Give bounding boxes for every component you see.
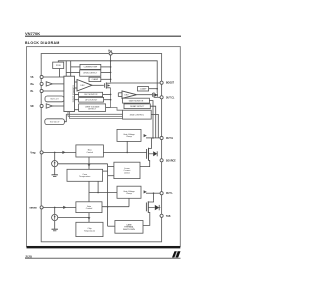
wire logic to driver A in2 [75,87,78,89]
svg-text:Control: Control [86,207,93,210]
wire Q3 drain [151,138,153,147]
wire IN- to logic [43,90,64,92]
svg-text:SD: SD [30,106,34,108]
wire to limiter in1 [108,166,114,168]
block uv lockout [79,97,104,102]
wire pin VS to logic [43,76,64,78]
transistor Q3 [147,147,158,162]
wire gate clamp to rail [149,88,158,90]
buffer IN+ [46,82,52,86]
arrow VREG [62,151,65,154]
block desat detect [124,104,150,109]
arrow clamp1 out [144,134,147,137]
block Vref1 [45,96,64,102]
junction Q4 drain [153,192,155,194]
wire I1 to limiter column [58,163,108,165]
wire gate monitor feedback [149,101,153,138]
svg-text:DETECT: DETECT [88,108,96,110]
arrow bias-case [88,164,91,167]
junction [156,88,158,90]
wire VREG to bias control [43,151,76,153]
block dvdt control [123,110,152,119]
svg-text:VS: VS [30,77,34,79]
wire logic to overvoltage [75,109,79,111]
svg-text:LEVEL DETECT: LEVEL DETECT [83,73,98,75]
svg-text:DESAT DETECT: DESAT DETECT [130,105,145,108]
pin TAB [160,214,163,217]
block level detector [80,70,101,76]
wire dvdt feedback [151,114,158,137]
block bias control [76,145,104,157]
svg-text:Vref 5.1 V: Vref 5.1 V [50,98,59,101]
wire drop1 to current ref [71,66,80,68]
svg-text:dV/dt CONTROL: dV/dt CONTROL [130,113,144,116]
wire osc monitor to bus [103,93,111,95]
wire bus to block dvdt [111,108,123,111]
block chip temperature [76,222,103,236]
wire case temp to limiter [103,170,108,172]
wire limiter column vertical [107,164,109,226]
svg-text:BLOCK DIAGRAM: BLOCK DIAGRAM [25,41,60,45]
wire supply rail to clamp FET [58,61,157,93]
wire driver B in2 [118,96,122,98]
wire drop2 to level detect [66,71,80,73]
wire logic to osc monitor [75,93,79,95]
wire IN+ to logic [52,83,64,85]
ground I1 [52,175,58,177]
junction [97,192,99,194]
pin SOURCE [160,159,163,162]
wire bundle 1 [66,113,122,115]
wire bundle drop 2 [69,112,71,119]
svg-text:OUT L: OUT L [166,193,173,195]
op-amp driver A [77,80,92,92]
svg-text:Control: Control [86,151,93,154]
svg-text:CLAMP: CLAMP [140,87,147,90]
wire driver B in join [117,93,119,97]
svg-text:Temperature: Temperature [84,229,96,232]
block gate voltage clamp 1 [117,129,141,141]
svg-text:Vreg: Vreg [30,152,36,154]
pin BOOST [160,81,163,84]
pin VREG [40,151,43,154]
wire case temp drop [97,181,99,192]
junction [54,207,56,209]
current source I1 [52,161,58,167]
wire bundle 3 [70,118,123,120]
block Vref2 [45,119,65,125]
svg-text:UV LOCKOUT: UV LOCKOUT [85,99,98,101]
svg-text:BOOST: BOOST [166,83,175,85]
svg-text:SHUTDOWN: SHUTDOWN [123,229,135,231]
wire column to thermal shutdown [108,225,115,227]
wire Q4 source to thermal [143,213,150,225]
junction Vcc/rail [110,60,112,62]
block osc monitor [79,92,103,96]
wire I2 join [58,217,89,219]
block overvoltage detect [79,104,106,112]
wire gate control out [102,206,129,208]
pin OUT L [160,192,163,195]
wire Vref2 to bundle [64,114,66,121]
ground I2 [52,229,58,231]
wire desat feedback [150,106,155,138]
svg-text:IN-: IN- [30,91,33,93]
footer rule [25,257,181,259]
block linear current limiter [114,162,140,178]
wire clamp to bus [101,78,111,80]
wire gate control to chip temp [88,213,90,223]
svg-text:OUT H: OUT H [166,138,173,140]
pin VS [40,75,43,78]
wire logic to uv lockout [75,99,79,101]
block case temperature [67,169,103,181]
wire case temp to gate control [88,181,90,202]
wire overvoltage to bus [106,107,111,109]
wire bundle 2 [68,115,123,117]
wire I1 to ground [54,167,56,175]
svg-text:VN770K: VN770K [25,31,40,36]
block gate control [76,202,102,213]
block case thermal shutdown [115,221,143,234]
wire Q2 to pin OUT [157,96,160,98]
transistor Q4 [146,200,160,213]
block gate monitor [123,98,150,103]
wire driver B in1 [118,92,122,94]
node Q3 gate [146,151,148,153]
wire clamp1 to gate rail [126,141,128,152]
svg-text:POR: POR [56,65,61,67]
wire logic to driver A in1 [75,81,78,83]
junction [54,152,56,154]
header rule [25,35,181,37]
junction [110,72,112,74]
wire POR to pin VS [59,69,61,78]
pin OUT H [160,136,163,139]
junction [110,79,112,81]
wire to limiter in2 [108,175,114,177]
block gate voltage clamp 2 [117,186,141,198]
figure frame bottom (thick) [27,246,181,248]
svg-text:CONTROL LOGIC: CONTROL LOGIC [71,85,73,103]
svg-text:SENSE: SENSE [29,207,37,209]
svg-text:OSC MONITOR: OSC MONITOR [84,94,98,96]
block POR [53,62,64,68]
node Q4 gate [145,206,147,208]
wire bundle drop 1 [67,112,69,117]
wire bias to case temp [88,157,90,169]
junction [152,137,154,139]
wire bus lower [110,88,112,108]
wire to pin OUT L [146,192,160,194]
wire bias to Q3 gate [103,151,146,153]
block logic level-shifter [64,76,75,111]
wire to pin TAB [159,215,162,217]
junction [110,66,112,68]
current source I2 [52,214,58,220]
arrow clamp2 out [144,190,147,193]
svg-text:Temperature: Temperature [79,175,91,178]
svg-text:Clamp: Clamp [126,136,133,138]
figure frame [27,47,181,247]
svg-text:TAB: TAB [166,215,171,218]
junction [110,99,112,101]
pin OUT CL [160,96,163,99]
junction [126,152,128,154]
pin Vcc [109,52,112,55]
wire Q1 to pin BOOST [111,82,160,84]
wire rail drop 2 [70,61,72,76]
transistor Q2 [152,92,157,97]
svg-text:GATE MONITOR: GATE MONITOR [129,99,144,102]
wire to current source I2 [54,207,56,214]
svg-text:Clamp: Clamp [126,193,133,195]
pin SD [40,104,43,107]
svg-text:Vref 10.5 V: Vref 10.5 V [50,120,60,123]
pin IN+ [40,82,43,85]
wire Vcc bus upper [110,55,112,82]
wire uv lockout to bus [104,99,111,101]
chip outline [41,54,161,242]
junction [107,206,109,208]
arrow SENSE [63,206,66,209]
wire to gate voltage clamp 2 [89,192,117,194]
block current reference [80,64,101,69]
wire rail drop 1 [65,61,67,76]
transistor Q1 [105,82,111,88]
wire level detect to bus [101,71,111,73]
wire SD to logic [52,105,64,107]
wire SENSE to gate control [43,206,76,208]
wire clamp2 bottom [128,198,130,206]
block gate clamp top [138,87,149,91]
svg-text:CURRENT REF: CURRENT REF [84,67,98,69]
wire limiter to Q3 source [140,161,150,167]
buffer SD [46,104,52,108]
wire to pin OUT H [146,137,160,139]
svg-text:SOURCE: SOURCE [166,160,176,162]
pin SENSE [40,206,43,209]
ST logo [172,251,181,257]
wire current ref to bus [101,66,111,68]
wire driver A to Q1 gate [92,84,104,86]
pin IN- [40,89,43,92]
svg-text:OUT CL: OUT CL [166,97,175,99]
svg-text:CLAMP: CLAMP [92,78,99,81]
wire driver B to Q2 [137,94,153,96]
wire to current source I1 [54,152,56,160]
junction [110,94,112,96]
op-amp driver B [122,91,137,98]
arrow gate-chip [88,217,91,220]
svg-text:Limiter: Limiter [124,171,130,174]
wire Q4 drain [153,193,155,200]
wire I2 to ground [54,221,56,229]
block clamp [89,77,101,81]
